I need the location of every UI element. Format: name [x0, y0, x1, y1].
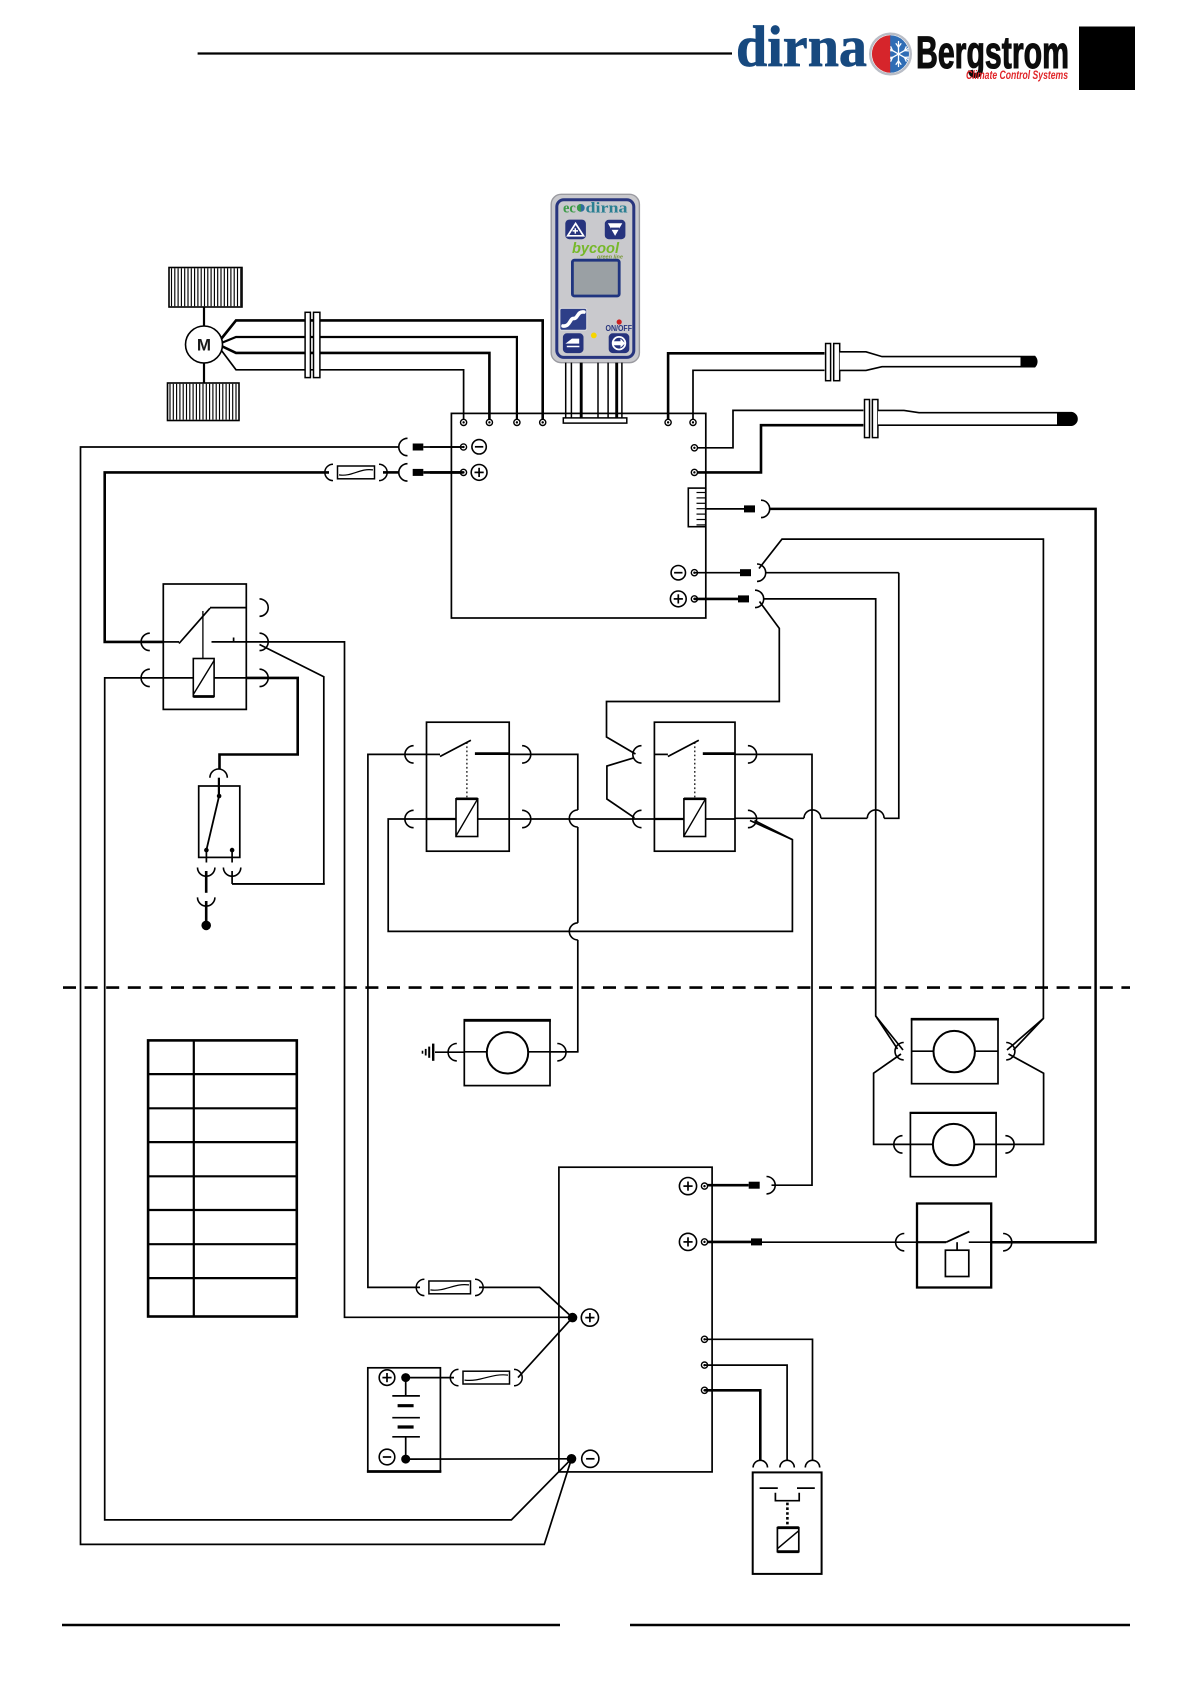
A2 ground input node: [567, 1454, 577, 1464]
cab switch S1: [199, 769, 240, 857]
A1 top terminals: [461, 419, 467, 425]
svg-text:dirna: dirna: [586, 201, 629, 217]
fuse F1: [325, 464, 333, 480]
svg-text:dirna: dirna: [736, 14, 867, 79]
M3 to M4 right link: [996, 1054, 1044, 1144]
A2 plus output 1: [679, 1178, 696, 1195]
M2 wire to K2: [550, 1051, 578, 1053]
K3 terminal jumper: [607, 758, 635, 818]
probe B2 wire a: [694, 410, 863, 447]
motor connector X1: [305, 312, 310, 377]
motor wire 4: [222, 351, 464, 423]
A1 left terminals: [460, 444, 466, 450]
A2 compressor terminals: [701, 1336, 707, 1342]
A1 bottom-right minus: [671, 566, 685, 580]
battery plus wire via fuse F3: [410, 1377, 454, 1379]
probe B1 wire -: [693, 370, 825, 422]
S1 ground end dot: [201, 921, 211, 931]
A1 minus out left: [430, 446, 464, 448]
comb connector wire to pressure switch: [706, 508, 744, 510]
temperature probe B2: [878, 410, 1077, 425]
M3 feed diagonals: [876, 1016, 903, 1050]
K1 common thick wire to cab switch S1: [220, 678, 298, 770]
motor wire 1: [222, 320, 543, 422]
footer rule right: [630, 1624, 1130, 1627]
K3 coil feed from +12V (A1 plus): [607, 602, 780, 755]
cab/engine compartment separation dashed line: [63, 986, 1130, 989]
A1 plus out left: [430, 471, 464, 474]
control panel U1 (ecodirna bycool): [551, 194, 639, 362]
relay K3: [633, 722, 757, 851]
condenser fan blade top: [169, 268, 242, 308]
pressure switch S2: [896, 1204, 1012, 1288]
probe B1 wire +: [668, 353, 824, 422]
motor shaft: [203, 307, 205, 327]
battery minus wire: [410, 1458, 572, 1460]
pump M4: [894, 1113, 1014, 1177]
S1 output leg: [231, 850, 233, 862]
K2 coil wire via fuse F2 to +12V node: [368, 754, 427, 1287]
dirna-bergstrom emblem: [870, 34, 911, 75]
probe B1 connector: [826, 344, 831, 381]
battery G1: [367, 1368, 441, 1472]
svg-text:ON/OFF: ON/OFF: [606, 324, 633, 333]
K2 coil return wire to K3 contact: [388, 819, 792, 931]
footer rule left: [62, 1624, 560, 1627]
bottom control unit A2: [559, 1167, 712, 1472]
svg-text:Climate Control Systems: Climate Control Systems: [966, 68, 1068, 82]
A2 plus output 2: [679, 1233, 696, 1250]
positive feed wire (A1 plus via fuse F1 to relay K1): [423, 471, 463, 474]
control panel ribbon pins: [565, 363, 567, 418]
pump M3: [895, 1019, 1015, 1083]
probe B2 connector: [865, 400, 870, 438]
A2 +12V input node: [568, 1313, 578, 1323]
motor wire 2: [223, 337, 517, 422]
K1 contact branch to cab switch: [232, 645, 324, 884]
relay K1: [141, 584, 268, 709]
temperature probe B1: [840, 352, 1037, 371]
A1 right terminals: [691, 445, 697, 451]
M3 to M4 left link: [874, 1054, 911, 1144]
comb connector J1: [688, 488, 705, 527]
svg-text:M: M: [197, 336, 211, 355]
A1 minus wire branches: [694, 572, 740, 574]
negative feed wire (A1 minus to battery minus node): [423, 446, 463, 448]
K3 common wire to A2 plus input: [735, 754, 812, 1185]
K1 coil negative wire: [105, 678, 572, 1520]
legend table: [148, 1040, 297, 1316]
M2 ground: [435, 1051, 464, 1053]
A2 compressor wire 1: [705, 1339, 813, 1460]
probe B2 wire b: [694, 425, 863, 472]
black corner block: [1079, 27, 1135, 91]
K2 to K3 coil row wire: [509, 818, 654, 820]
main control unit A1: [451, 413, 705, 618]
header rule: [198, 52, 732, 54]
A1 bottom-right plus: [670, 591, 686, 607]
motor wire 3: [223, 347, 490, 423]
K3 contact diagonal to K2 return: [750, 821, 792, 840]
ribbon connector bar: [563, 418, 627, 423]
K1 NO contact wire to +12V node: [246, 642, 572, 1317]
compressor clutch Y1: [753, 1460, 822, 1574]
A2 compressor wire 3: [705, 1390, 761, 1460]
S2 wire to A2 second plus: [762, 1241, 917, 1243]
motor M1: [186, 326, 223, 363]
K2 common wire to evaporator blower: [509, 754, 578, 810]
condenser fan blade bottom: [168, 383, 240, 421]
A2 compressor wire 2: [705, 1365, 788, 1460]
A1 plus wire branches: [694, 598, 738, 601]
relay K2: [405, 722, 531, 851]
svg-text:ec: ec: [563, 201, 576, 217]
K3 contact wire to A1 minus: [735, 817, 804, 819]
S1 ground leg: [205, 850, 207, 862]
evaporator blower M2: [448, 1020, 566, 1085]
